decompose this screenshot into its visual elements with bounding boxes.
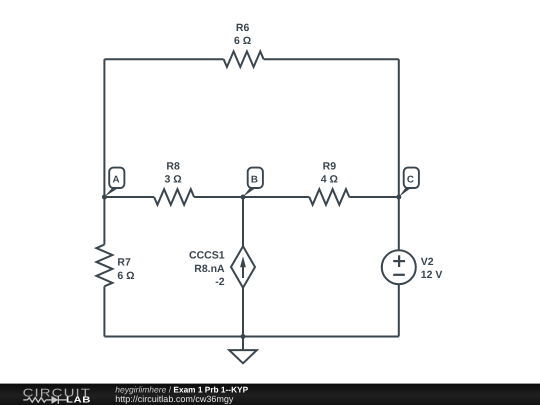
svg-text:http://circuitlab.com/cw36mgy: http://circuitlab.com/cw36mgy [115,394,234,404]
svg-text:6 Ω: 6 Ω [117,270,134,282]
svg-text:R7: R7 [117,257,131,269]
svg-text:R8.nA: R8.nA [194,263,225,275]
svg-text:B: B [251,175,258,186]
svg-text:LAB: LAB [66,395,91,405]
svg-text:heygirlimhere / Exam 1 Prb 1--: heygirlimhere / Exam 1 Prb 1--KYP [115,384,248,394]
svg-text:C: C [407,175,414,186]
svg-text:3 Ω: 3 Ω [165,174,182,186]
svg-text:6 Ω: 6 Ω [234,35,251,47]
svg-text:12 V: 12 V [421,269,443,281]
svg-text:CCCS1: CCCS1 [189,250,225,262]
svg-text:A: A [112,175,119,186]
svg-text:-2: -2 [215,276,224,288]
svg-text:4 Ω: 4 Ω [321,174,338,186]
svg-text:R9: R9 [323,161,337,173]
svg-text:V2: V2 [421,256,434,268]
svg-text:R6: R6 [236,22,250,34]
svg-text:R8: R8 [166,161,180,173]
